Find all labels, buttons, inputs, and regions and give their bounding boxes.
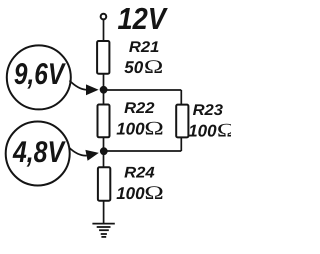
resistor R21	[97, 41, 109, 74]
wire R23 to bottom rail	[180, 137, 182, 151]
wire R22 to node B	[103, 137, 105, 167]
svg-text:Ω: Ω	[144, 118, 163, 139]
resistor R24	[98, 167, 110, 200]
wire node A to R23 branch	[104, 89, 182, 91]
svg-text:R21: R21	[129, 39, 159, 56]
resistor R23	[176, 105, 188, 138]
resistor R22	[98, 105, 110, 138]
svg-text:R23: R23	[193, 102, 224, 119]
svg-text:100: 100	[188, 121, 217, 140]
svg-text:Ω: Ω	[217, 120, 231, 141]
svg-text:100: 100	[116, 119, 145, 138]
svg-text:4,8V: 4,8V	[12, 136, 66, 169]
wire R21 to node A	[103, 74, 105, 105]
ground	[92, 224, 114, 237]
node B	[100, 147, 108, 155]
wire node B to R23 branch	[104, 150, 182, 152]
arrow to node B	[69, 148, 99, 161]
voltage callout 4,8V	[6, 122, 70, 186]
terminal 12V	[101, 14, 107, 20]
node A	[100, 86, 108, 94]
svg-text:50: 50	[124, 58, 143, 77]
svg-text:R22: R22	[124, 100, 155, 117]
voltage callout 9,6V	[7, 45, 71, 109]
arrow to node A	[70, 81, 99, 96]
wire R24 to ground	[103, 201, 105, 224]
svg-text:Ω: Ω	[144, 183, 163, 204]
svg-text:R24: R24	[124, 165, 155, 182]
svg-text:12V: 12V	[118, 2, 169, 36]
svg-text:9,6V: 9,6V	[14, 58, 67, 91]
wire terminal to R21	[103, 19, 105, 41]
svg-text:100: 100	[116, 184, 145, 203]
svg-text:Ω: Ω	[144, 57, 163, 78]
wire R23 branch down	[180, 90, 182, 105]
